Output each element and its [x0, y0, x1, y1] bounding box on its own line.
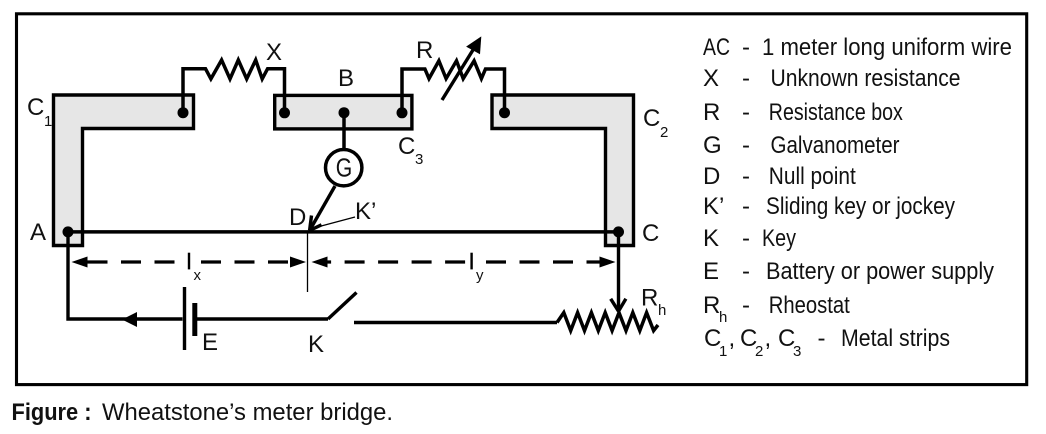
svg-text:D: D — [289, 204, 306, 231]
svg-text:D: D — [703, 163, 720, 190]
wire A down to battery — [68, 232, 183, 319]
svg-text:E: E — [202, 329, 218, 356]
svg-text:-: - — [742, 258, 750, 285]
svg-text:Unknown resistance: Unknown resistance — [771, 65, 961, 92]
battery E — [185, 287, 195, 350]
resistor R with leads — [402, 61, 505, 113]
svg-text:C: C — [27, 94, 44, 121]
node C dot — [613, 226, 624, 237]
svg-text:R: R — [703, 99, 720, 126]
node dot on C1 — [178, 107, 189, 118]
svg-text:X: X — [266, 39, 282, 66]
svg-text:-: - — [742, 292, 750, 319]
svg-text:Null point: Null point — [769, 163, 856, 190]
legend row X — [703, 65, 961, 92]
svg-text:G: G — [336, 155, 353, 183]
node dot B left — [279, 107, 290, 118]
pointer line for K' — [316, 217, 355, 228]
label C2 — [643, 105, 668, 141]
svg-text:-: - — [742, 132, 750, 159]
svg-text:1: 1 — [44, 113, 52, 130]
svg-text:K: K — [703, 225, 719, 252]
svg-text:R: R — [416, 37, 433, 64]
svg-text:-: - — [742, 163, 750, 190]
wire AC — [68, 230, 619, 234]
svg-text:h: h — [658, 302, 666, 319]
label ly — [472, 253, 484, 284]
svg-text:-: - — [742, 65, 750, 92]
svg-text:3: 3 — [793, 343, 801, 360]
svg-text:R: R — [703, 292, 720, 319]
svg-text:Wheatstone’s meter bridge.: Wheatstone’s meter bridge. — [102, 399, 393, 426]
svg-text:-: - — [742, 99, 750, 126]
legend row C1 C2 C3 — [704, 325, 950, 360]
svg-text:Metal strips: Metal strips — [841, 325, 950, 352]
svg-text:Rheostat: Rheostat — [769, 292, 850, 319]
svg-text:2: 2 — [755, 343, 763, 360]
svg-text:C: C — [642, 220, 659, 247]
svg-text:C: C — [643, 105, 660, 132]
legend row R — [703, 99, 903, 126]
svg-text:1 meter long uniform wire: 1 meter long uniform wire — [762, 34, 1012, 61]
svg-text:R: R — [641, 285, 658, 312]
caption — [12, 399, 394, 426]
current direction arrow — [122, 312, 137, 327]
wire C down to rheostat tap with arrow — [611, 232, 626, 311]
label C1 — [27, 94, 52, 130]
node A dot — [63, 226, 74, 237]
resistor X with leads — [183, 60, 285, 113]
svg-text:K’: K’ — [355, 198, 376, 225]
node dot B middle — [339, 107, 350, 118]
dimension arrow ly — [312, 257, 616, 268]
legend row G — [703, 132, 900, 159]
svg-text:-: - — [742, 225, 750, 252]
svg-text:,: , — [765, 325, 772, 352]
svg-text:-: - — [818, 325, 826, 352]
svg-text:Sliding key or jockey: Sliding key or jockey — [766, 193, 955, 220]
legend row E — [703, 258, 994, 285]
svg-text:E: E — [703, 258, 719, 285]
wire B to galvanometer — [342, 113, 346, 151]
svg-text:Key: Key — [762, 225, 796, 252]
svg-text:x: x — [194, 267, 202, 284]
svg-text:C: C — [398, 133, 415, 160]
svg-text:h: h — [719, 309, 727, 326]
legend row Rh — [703, 292, 850, 326]
svg-text:K’: K’ — [703, 193, 724, 220]
wire key to rheostat — [354, 321, 557, 324]
svg-text:Resistance box: Resistance box — [769, 99, 903, 126]
jockey wire with arrow to D — [310, 186, 335, 231]
legend row K' — [703, 193, 955, 220]
svg-text:2: 2 — [660, 124, 668, 141]
label Rh — [641, 285, 666, 320]
label lx — [189, 253, 202, 284]
metal strip C2 — [492, 95, 634, 246]
svg-text:1: 1 — [719, 343, 727, 360]
metal strip B (C3) — [275, 95, 412, 128]
node dot C2 top — [499, 107, 510, 118]
svg-text:3: 3 — [415, 151, 423, 168]
svg-text:G: G — [703, 132, 722, 159]
key K (switch lever) — [328, 293, 357, 320]
thin line at null point D — [307, 232, 309, 292]
wire battery to key — [197, 317, 328, 320]
variable arrow through R — [442, 36, 481, 100]
label C3 — [398, 133, 423, 168]
svg-text:y: y — [476, 267, 484, 284]
svg-text:B: B — [338, 65, 354, 92]
svg-text:Battery or power supply: Battery or power supply — [766, 258, 994, 285]
svg-text:X: X — [703, 65, 719, 92]
metal strip C1 — [54, 95, 194, 246]
legend row AC — [703, 34, 1012, 61]
node dot B right — [397, 107, 408, 118]
svg-text:AC: AC — [703, 34, 730, 61]
svg-text:Figure :: Figure : — [12, 399, 92, 426]
galvanometer G — [326, 150, 362, 186]
dimension arrow lx — [72, 257, 307, 268]
svg-text:-: - — [742, 34, 750, 61]
svg-text:K: K — [308, 331, 324, 358]
svg-text:Galvanometer: Galvanometer — [771, 132, 900, 159]
svg-text:,: , — [729, 325, 736, 352]
svg-text:A: A — [30, 219, 46, 246]
svg-text:-: - — [742, 193, 750, 220]
legend row K — [703, 225, 796, 252]
legend row D — [703, 163, 856, 190]
rheostat Rh — [557, 313, 658, 331]
